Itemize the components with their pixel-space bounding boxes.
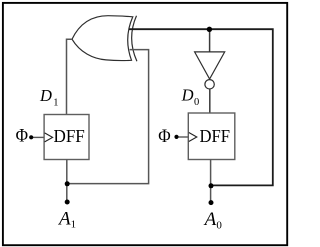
clock triangle left bbox=[45, 133, 53, 142]
node: junction dot left output bbox=[65, 181, 70, 186]
node: junction dot above inverter bbox=[207, 27, 212, 32]
wire: A1 feedback (left DFF output up to XOR lower input) bbox=[67, 50, 148, 184]
inverter bubble bbox=[205, 80, 214, 89]
wire: clock phi to right DFF bbox=[176, 136, 188, 138]
wire: clock phi to left DFF bbox=[31, 136, 44, 138]
wire: right DFF output down to A0 bbox=[210, 160, 212, 203]
svg-text:1: 1 bbox=[71, 218, 77, 230]
node: junction dot right output bbox=[209, 183, 214, 188]
node: terminal dot A1 bbox=[65, 200, 70, 205]
svg-text:D: D bbox=[181, 86, 194, 105]
XOR gate U1 (left-facing, output at left tip) bbox=[72, 16, 137, 62]
svg-text:Φ: Φ bbox=[16, 126, 28, 147]
wire: top A0 net (XOR upper input to right side, down right edge) bbox=[129, 29, 273, 185]
svg-text:0: 0 bbox=[216, 220, 222, 232]
svg-text:0: 0 bbox=[194, 97, 199, 108]
svg-text:Φ: Φ bbox=[158, 126, 170, 147]
svg-text:DFF: DFF bbox=[54, 126, 85, 146]
wire: XOR output to D1 input bbox=[67, 39, 73, 115]
wire: inverter output to D0 input bbox=[209, 89, 211, 114]
svg-text:A: A bbox=[57, 209, 71, 230]
XOR second input arc bbox=[132, 16, 137, 61]
inverter U2 (pointing down) bbox=[195, 52, 225, 79]
svg-text:1: 1 bbox=[53, 98, 58, 109]
wire: inverter input stub bbox=[209, 29, 211, 52]
svg-text:A: A bbox=[203, 209, 217, 230]
node: phi bullet left bbox=[29, 135, 33, 139]
DFF U3 box (left) bbox=[44, 115, 89, 160]
svg-text:DFF: DFF bbox=[200, 126, 231, 146]
DFF U4 box (right) bbox=[188, 113, 235, 160]
svg-text:D: D bbox=[39, 86, 52, 105]
wire: left DFF output down to A1 bbox=[66, 160, 68, 203]
clock triangle right bbox=[189, 133, 197, 142]
node: terminal dot A0 bbox=[209, 200, 214, 205]
node: phi bullet right bbox=[174, 135, 178, 139]
